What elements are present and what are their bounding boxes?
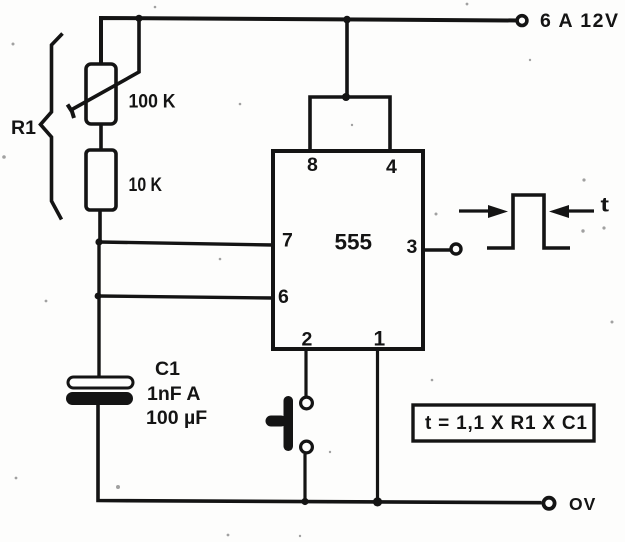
potentiometer wiper wire <box>71 18 139 110</box>
arrow right <box>549 205 594 218</box>
svg-text:8: 8 <box>307 154 318 176</box>
wire supply drop to pins 8 4 <box>345 20 349 98</box>
wire node to pin 6 <box>98 296 273 298</box>
svg-text:3: 3 <box>407 236 418 258</box>
capacitor C1 top plate <box>68 377 133 388</box>
node junction supply on rail <box>343 16 351 24</box>
brace R1 <box>41 34 63 220</box>
IC U1 555 body <box>273 151 423 349</box>
node junction pin1 on rail <box>373 497 382 506</box>
capacitor C1 bottom plate <box>66 392 133 405</box>
node junction pin6 branch <box>95 293 102 300</box>
svg-text:4: 4 <box>386 156 397 178</box>
wire node down to capacitor <box>97 242 100 378</box>
wire pot to resistor <box>99 124 103 150</box>
svg-text:OV: OV <box>569 494 596 514</box>
wire top supply rail <box>101 18 519 64</box>
svg-text:1: 1 <box>374 328 386 351</box>
pushbutton bottom contact <box>301 441 313 453</box>
node junction button on rail <box>301 498 308 505</box>
wire capacitor to bottom rail <box>98 405 542 503</box>
waveform pulse <box>487 195 570 248</box>
svg-text:C1: C1 <box>155 358 180 380</box>
wire pin 1 to bottom rail <box>376 349 379 502</box>
wire pin 2 to button <box>304 349 307 396</box>
svg-text:2: 2 <box>302 329 313 351</box>
svg-text:6: 6 <box>278 286 289 308</box>
wire bracket pins 8 and 4 <box>310 97 390 151</box>
pushbutton actuator stem <box>266 416 287 427</box>
svg-text:100 K: 100 K <box>129 91 176 113</box>
terminal 12V <box>517 16 527 26</box>
wire pin 3 output <box>423 248 450 251</box>
node junction pin7 branch <box>95 238 102 245</box>
svg-text:555: 555 <box>335 230 373 255</box>
svg-text:t = 1,1 X R1 X C1: t = 1,1 X R1 X C1 <box>425 413 587 434</box>
svg-text:10 K: 10 K <box>129 174 163 196</box>
wire resistor bottom to node <box>98 210 102 243</box>
svg-text:1nF A: 1nF A <box>147 383 200 405</box>
pushbutton top contact <box>301 397 313 409</box>
svg-text:7: 7 <box>282 230 293 252</box>
svg-text:R1: R1 <box>11 117 36 139</box>
resistor 10K <box>86 150 116 210</box>
svg-text:t: t <box>601 195 610 217</box>
wire node to pin 7 <box>99 242 273 245</box>
node junction on bracket <box>342 93 350 101</box>
terminal 0V <box>543 498 554 509</box>
potentiometer wiper end tick <box>68 105 75 119</box>
wire button to bottom rail <box>303 454 306 502</box>
potentiometer 100K body <box>86 64 116 124</box>
node junction on top rail <box>135 15 142 22</box>
svg-text:100 µF: 100 µF <box>146 407 207 429</box>
terminal output pin 3 <box>451 244 461 254</box>
formula box <box>413 405 594 441</box>
arrow left <box>459 205 508 218</box>
pushbutton actuator bar <box>284 396 294 451</box>
